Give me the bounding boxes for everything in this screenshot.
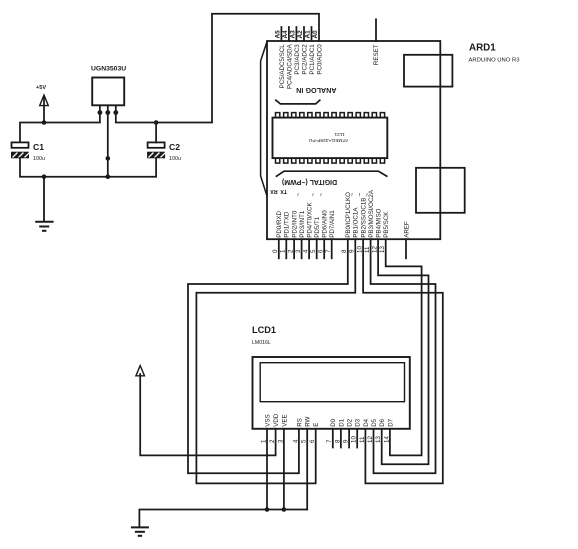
wire arduino pin10 to LCD D4 — [363, 239, 443, 483]
sensor pin stubs with terminal dots — [99, 105, 101, 113]
pin 6 PD6/AIN0 — [318, 210, 329, 259]
svg-text:A0: A0 — [312, 30, 319, 39]
lcd pin 12 D5 — [367, 418, 378, 443]
svg-text:UGN3503U: UGN3503U — [91, 66, 126, 73]
lcd pin 8 D1 — [334, 418, 345, 447]
pin 9 PB1/OC1A — [349, 207, 360, 253]
svg-text:TX: TX — [280, 188, 287, 194]
arduino U2 ARD1 body — [267, 41, 520, 239]
pin A4 — [282, 27, 293, 89]
ground symbol top-left — [36, 177, 52, 231]
svg-text:D1: D1 — [338, 418, 345, 426]
svg-text:PD2/INT0: PD2/INT0 — [292, 210, 299, 238]
svg-text:VSS: VSS — [264, 414, 271, 426]
svg-text:ARDUINO UNO R3: ARDUINO UNO R3 — [469, 58, 521, 64]
svg-text:D6: D6 — [379, 418, 386, 426]
svg-text:10: 10 — [351, 436, 358, 443]
pin RESET stub and label — [373, 19, 380, 65]
svg-text:A5: A5 — [275, 30, 282, 39]
wire arduino pin9 to LCD E — [196, 239, 355, 483]
svg-text:D5: D5 — [371, 418, 378, 426]
lcd pin 9 D2 — [343, 418, 354, 447]
lcd LCD1 LM016L body — [252, 325, 410, 429]
junction +5V rail — [42, 120, 47, 125]
svg-text:RESET: RESET — [373, 44, 380, 65]
lcd pin 4 RS — [292, 418, 303, 443]
svg-text:6: 6 — [318, 249, 325, 253]
svg-text:VEE: VEE — [281, 414, 288, 426]
junction ground at VEE — [282, 507, 287, 512]
svg-text:3: 3 — [295, 249, 302, 253]
svg-text:6: 6 — [309, 439, 316, 443]
svg-text:ATMEGA328P-PU: ATMEGA328P-PU — [308, 137, 348, 143]
svg-text:D7: D7 — [387, 418, 394, 426]
power +5V — [36, 85, 48, 123]
svg-text:LCD1: LCD1 — [252, 325, 276, 335]
svg-text:A3: A3 — [290, 30, 297, 39]
svg-text:~: ~ — [357, 193, 364, 197]
svg-text:E: E — [313, 423, 320, 427]
label ANALOG IN — [276, 86, 337, 104]
svg-text:2: 2 — [288, 249, 295, 253]
wire sensor pin2 to ground — [107, 113, 109, 177]
svg-text:1: 1 — [280, 249, 287, 253]
svg-text:4: 4 — [303, 249, 310, 253]
wire arduino pin13 to LCD D7 — [386, 239, 422, 455]
pin 5 PD5/T1 — [310, 216, 321, 258]
power +5V arrow at LCD — [136, 366, 145, 376]
lcd pin 6 E — [309, 423, 320, 443]
svg-text:RS: RS — [296, 418, 303, 427]
svg-text:PC4/ADC4/SDA: PC4/ADC4/SDA — [286, 43, 293, 89]
wire ground bus top-left — [20, 158, 156, 177]
svg-text:PD3/INT1: PD3/INT1 — [299, 210, 306, 238]
svg-text:PC0/ADC0: PC0/ADC0 — [316, 44, 323, 75]
svg-text:13: 13 — [375, 436, 382, 443]
wire LCD VEE to ground — [283, 429, 285, 510]
svg-text:PC2/ADC2: PC2/ADC2 — [301, 44, 308, 75]
lcd pin 1 VSS — [260, 414, 271, 443]
pin AREF — [403, 221, 410, 258]
svg-text:4: 4 — [292, 439, 299, 443]
svg-text:7: 7 — [326, 439, 333, 443]
wire arduino pin12 to LCD D6 — [378, 239, 428, 464]
svg-text:~: ~ — [318, 193, 325, 197]
pin 11 PB3/MOSI/OC2A — [364, 189, 375, 253]
junction ground at sensor pin2 — [106, 174, 111, 179]
junction ground at VSS — [265, 507, 270, 512]
svg-text:5: 5 — [310, 249, 317, 253]
svg-text:100u: 100u — [169, 156, 181, 162]
lcd pin 11 D4 — [359, 418, 370, 443]
lcd screen — [260, 363, 404, 402]
svg-text:D0: D0 — [330, 418, 337, 426]
arduino power connector box — [416, 168, 465, 213]
svg-text:7: 7 — [325, 249, 332, 253]
pin 2 PD2/INT0 — [288, 210, 299, 258]
pin 1 PD1/TXD — [280, 211, 291, 258]
svg-text:RW: RW — [305, 416, 312, 426]
svg-text:PB1/OC1A: PB1/OC1A — [353, 207, 360, 238]
svg-text:9: 9 — [343, 439, 350, 443]
pin 3 PD3/INT1 — [295, 210, 306, 258]
svg-text:+5V: +5V — [36, 85, 46, 91]
svg-text:A4: A4 — [282, 30, 289, 39]
svg-text:ARD1: ARD1 — [469, 43, 496, 54]
label DIGITAL (~PWM) — [277, 171, 387, 185]
capacitor C2 — [148, 142, 181, 162]
svg-text:PB2/SS/OC1B: PB2/SS/OC1B — [361, 198, 368, 238]
svg-text:LM016L: LM016L — [252, 340, 271, 346]
svg-text:11: 11 — [359, 436, 366, 443]
svg-text:D4: D4 — [363, 418, 370, 426]
pin A5 — [275, 27, 286, 88]
lcd pin 13 D6 — [375, 418, 386, 443]
svg-text:VDD: VDD — [273, 413, 280, 427]
pin 7 PD7/AIN1 — [325, 210, 336, 259]
svg-text:PB4/MISO: PB4/MISO — [376, 208, 383, 237]
svg-text:8: 8 — [334, 439, 341, 443]
svg-text:100u: 100u — [33, 156, 45, 162]
svg-text:PD1/TXD: PD1/TXD — [284, 211, 291, 238]
pin A3 — [290, 27, 301, 75]
wire ground bus bottom — [139, 510, 307, 527]
svg-text:PB0/ICP1/CLKO: PB0/ICP1/CLKO — [345, 192, 352, 238]
arduino left bracket — [261, 42, 267, 196]
arduino usb connector box — [404, 55, 452, 87]
pin A2 — [297, 27, 308, 75]
pwm tilde marks — [295, 193, 371, 197]
svg-text:PC3/ADC3: PC3/ADC3 — [294, 44, 301, 75]
wire C2 top branch — [155, 123, 157, 143]
svg-text:A1: A1 — [305, 30, 312, 39]
svg-text:D3: D3 — [355, 418, 362, 426]
lcd pin 5 RW — [301, 416, 312, 443]
svg-text:PC1/ADC1: PC1/ADC1 — [309, 44, 316, 75]
pin A0 — [312, 30, 323, 75]
svg-text:PD5/T1: PD5/T1 — [314, 216, 321, 238]
svg-text:~: ~ — [310, 193, 317, 197]
lcd pin 7 D0 — [326, 418, 337, 447]
svg-text:C1: C1 — [33, 142, 44, 152]
wire arduino pin11 to LCD D5 — [371, 239, 436, 473]
wire sensor output to node A0 — [116, 14, 319, 123]
svg-text:PD0/RXD: PD0/RXD — [276, 210, 283, 237]
svg-text:PC5/ADC5/SCL: PC5/ADC5/SCL — [279, 44, 286, 89]
pin 10 PB2/SS/OC1B — [357, 198, 368, 253]
svg-text:PB3/MOSI/OC2A: PB3/MOSI/OC2A — [368, 189, 375, 238]
svg-text:14: 14 — [383, 436, 390, 443]
svg-text:PD7/AIN1: PD7/AIN1 — [329, 210, 336, 238]
lcd pin 3 VEE — [277, 414, 288, 443]
lcd pin 14 D7 — [383, 418, 394, 443]
svg-text:AREF: AREF — [403, 221, 410, 238]
capacitor C1 — [12, 142, 46, 162]
junction C2 tap — [154, 120, 159, 125]
junction ground at stem — [42, 174, 47, 179]
svg-text:A2: A2 — [297, 30, 304, 39]
analog bracket — [276, 100, 320, 104]
pin 8 PB0/ICP1/CLKO — [341, 192, 352, 253]
wire LCD VSS to ground — [266, 429, 268, 510]
svg-text:DIGITAL (~PWM): DIGITAL (~PWM) — [282, 178, 337, 185]
svg-text:12: 12 — [367, 436, 374, 443]
svg-text:C2: C2 — [169, 142, 180, 152]
ground symbol bottom — [132, 527, 148, 535]
svg-text:1121: 1121 — [334, 131, 345, 137]
svg-text:~: ~ — [295, 193, 302, 197]
wire LCD VDD to +5V — [140, 374, 275, 455]
junction sensor pin2 mid dot — [106, 156, 111, 161]
svg-text:PD6/AIN0: PD6/AIN0 — [322, 210, 329, 238]
svg-text:ANALOG IN: ANALOG IN — [296, 86, 336, 95]
pin 4 PD4/T0/XCK — [303, 202, 314, 259]
pin 13 PB5/SCK — [379, 211, 390, 253]
svg-text:RX: RX — [270, 188, 278, 194]
svg-text:PD4/T0/XCK: PD4/T0/XCK — [307, 202, 314, 238]
wire +5V rail to C1 top and sensor pin1 — [20, 113, 100, 142]
svg-text:D2: D2 — [347, 418, 354, 426]
chip U3 ATMEGA328P-PU — [273, 113, 388, 164]
svg-text:PB5/SCK: PB5/SCK — [383, 211, 390, 238]
svg-text:0: 0 — [272, 249, 279, 253]
pin 12 PB4/MISO — [372, 208, 383, 253]
wire LCD RW to ground — [306, 429, 308, 510]
lcd pin 2 VDD — [269, 413, 280, 443]
pin A1 — [305, 27, 316, 75]
sensor U1 UGN3503U — [91, 66, 126, 116]
pin 0 PD0/RXD — [272, 210, 283, 258]
wire arduino pin8 to LCD RS — [188, 239, 348, 473]
lcd pin 10 D3 — [351, 418, 362, 447]
